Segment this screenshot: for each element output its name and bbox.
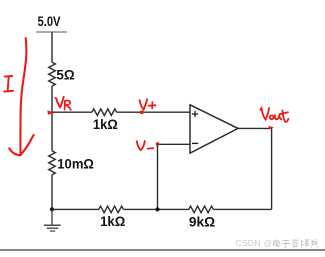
wire: node VR down to resistor R3 top xyxy=(51,112,53,151)
wire: R3 bottom to ground junction xyxy=(51,175,53,210)
value label 1kohm (bottom) xyxy=(100,214,125,229)
node V+ red dot xyxy=(140,110,144,114)
annotation arrowhead at node VR (red) xyxy=(47,110,55,115)
watermark CJK glyph blocks xyxy=(273,239,318,247)
resistor R1 5ohm xyxy=(49,62,56,86)
annotation current arrow I (red) xyxy=(9,38,33,155)
resistor R5 9kohm xyxy=(189,206,214,213)
annotation arrow tick at Vout corner (red) xyxy=(268,126,274,129)
wire: R1 bottom to node VR xyxy=(51,86,53,112)
wire: supply bar to resistor R1 top xyxy=(51,32,53,62)
wire: node V- to op-amp inverting input xyxy=(158,143,191,145)
wire: node V- down to bottom junction xyxy=(157,144,159,209)
svg-text:1kΩ: 1kΩ xyxy=(93,117,118,132)
resistor R4 1kohm (bottom) xyxy=(99,206,124,213)
annotation letter I (red) xyxy=(4,76,13,92)
op-amp plus pin mark xyxy=(192,111,198,117)
separator line (bottom rule) xyxy=(0,249,325,251)
value label 10mohm xyxy=(57,156,94,171)
annotation label Vout (red handwriting) xyxy=(260,108,288,122)
label 5.0V xyxy=(38,14,62,29)
svg-text:10mΩ: 10mΩ xyxy=(57,156,94,171)
resistor R3 10mohm xyxy=(49,151,56,175)
wire: R4 right to bottom junction xyxy=(123,208,188,210)
junction dot at V- bottom node xyxy=(155,207,159,211)
svg-text:5Ω: 5Ω xyxy=(56,68,74,83)
op-amp U1 xyxy=(190,105,238,153)
watermark CSDN xyxy=(236,238,273,248)
annotation label V+ (red handwriting) xyxy=(140,99,156,109)
svg-text:9kΩ: 9kΩ xyxy=(189,214,215,229)
value label 5ohm xyxy=(56,68,74,83)
svg-text:5.0V: 5.0V xyxy=(38,14,62,29)
wire: output corner down to feedback bottom xyxy=(271,128,273,209)
svg-text:1kΩ: 1kΩ xyxy=(100,214,125,229)
annotation label VR (red handwriting) xyxy=(55,97,71,110)
power rail bar VCC xyxy=(36,31,67,33)
node V- red dot xyxy=(156,142,160,146)
wire: R2 right to op-amp noninverting input xyxy=(117,111,190,113)
value label 1kohm (top) xyxy=(93,117,118,132)
junction dot at ground node xyxy=(50,207,54,211)
wire: ground junction to resistor R4 left xyxy=(52,208,99,210)
wire: op-amp output to corner xyxy=(238,127,272,129)
wire: node VR to resistor R2 left xyxy=(52,111,92,113)
annotation label V- (red handwriting) xyxy=(137,141,153,150)
ground symbol xyxy=(44,209,61,231)
op-amp minus pin mark xyxy=(192,142,198,144)
svg-text:CSDN @: CSDN @ xyxy=(236,238,273,248)
resistor R2 1kohm (top) xyxy=(92,109,117,116)
wire: R5 right to feedback corner xyxy=(213,208,271,210)
value label 9kohm xyxy=(189,214,215,229)
